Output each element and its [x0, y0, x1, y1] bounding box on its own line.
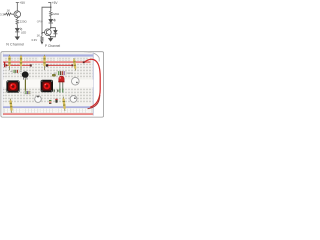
input arrow: [41, 42, 43, 45]
blue rail line bottom: [3, 106, 93, 108]
wire base: [42, 31, 45, 33]
wire: [16, 32, 18, 37]
olive wire W1: [25, 80, 26, 91]
red wire arc end dark: [88, 95, 100, 109]
resistor vertical V4: [73, 58, 77, 71]
wire to ground: [50, 37, 52, 38]
ground: [48, 38, 53, 41]
svg-text:GPIO: GPIO: [37, 21, 43, 24]
channel: [3, 80, 93, 88]
resistor small H3: [24, 91, 31, 94]
left edge markers: [3, 64, 4, 102]
svg-text:1K: 1K: [37, 34, 41, 38]
resistor vertical V6 bottom: [62, 96, 66, 111]
LED lamp L3: [58, 76, 64, 88]
wire collector to +5V: [16, 3, 18, 11]
wire input 2: [41, 33, 43, 36]
blue rail line top: [3, 54, 93, 56]
svg-text:220Ω: 220Ω: [20, 20, 27, 24]
red wire stub left: [4, 62, 5, 67]
svg-text:N Channel: N Channel: [6, 43, 24, 47]
frame: [1, 52, 104, 117]
wire emitter: [16, 18, 18, 20]
main grid bank a: [5, 63, 93, 78]
green wire stubs: [59, 89, 60, 93]
svg-text:+5V: +5V: [19, 1, 26, 5]
transistor Q1: [14, 11, 21, 18]
resistor vertical V3: [43, 55, 45, 70]
svg-text:P Channel: P Channel: [45, 44, 61, 48]
wire: [51, 34, 56, 37]
wire ends dark: [54, 90, 55, 92]
olive jumper: [52, 74, 56, 77]
button B2: [70, 96, 77, 103]
LED indicator L1: [6, 80, 19, 92]
wire branch: [42, 7, 51, 33]
node D: [50, 36, 51, 37]
power +5V symbol circuit 1: [16, 2, 19, 4]
diode D3: [53, 30, 57, 33]
red jumper wire B: [46, 64, 73, 66]
LED indicator L2: [41, 80, 53, 93]
red wire start cap: [83, 61, 85, 63]
resistor vertical V2: [20, 55, 22, 70]
small component dark/red: [55, 99, 57, 103]
svg-text:220Ω: 220Ω: [52, 12, 59, 16]
wire: [50, 23, 52, 28]
wire input: [4, 13, 6, 15]
red rail line bottom: [3, 113, 93, 115]
svg-text:LED: LED: [21, 30, 26, 34]
breadboard body: [3, 52, 94, 115]
svg-text:3.3V: 3.3V: [0, 12, 6, 16]
resistor horizontal H2: [54, 71, 73, 75]
bottom rail strip: [3, 108, 93, 113]
resistor R4 1K: [41, 36, 44, 41]
button B1: [35, 96, 42, 103]
node A: [50, 7, 51, 8]
svg-text:+5V: +5V: [52, 1, 59, 5]
svg-text:3.3V: 3.3V: [31, 38, 37, 42]
resistor small V7: [49, 99, 51, 104]
resistor vertical V1: [8, 55, 10, 70]
red jumper wire A: [6, 64, 32, 66]
board right edge: [93, 52, 94, 115]
ground: [15, 37, 20, 40]
LED D2: [49, 19, 53, 23]
resistor R3 220: [50, 11, 53, 17]
wire collector: [49, 28, 51, 30]
main grid bank b: [5, 88, 93, 103]
wire emitter: [49, 35, 51, 37]
LED D1: [15, 28, 19, 32]
wire base: [11, 13, 14, 15]
resistor R2 220: [16, 19, 19, 24]
button B3: [72, 77, 80, 85]
power +5V symbol circuit 2: [48, 2, 51, 4]
top rail strip: [3, 57, 93, 61]
wire: [16, 24, 18, 28]
transistor Q2: [45, 29, 52, 36]
resistor R1 1K (base): [6, 13, 12, 16]
wire: [50, 3, 52, 11]
resistor horizontal H1: [10, 70, 21, 73]
node B: [50, 27, 51, 28]
transistor T1: [22, 71, 29, 79]
board left edge: [2, 52, 5, 115]
wire branch to diode: [51, 28, 56, 31]
gray corner arc: [84, 52, 99, 62]
resistor vertical V5 bottom: [9, 98, 13, 113]
node C: [41, 33, 42, 34]
red rail line top: [3, 61, 91, 63]
wire: [50, 17, 52, 20]
red jumper wire arc: [84, 59, 100, 107]
svg-text:1K: 1K: [7, 8, 11, 12]
